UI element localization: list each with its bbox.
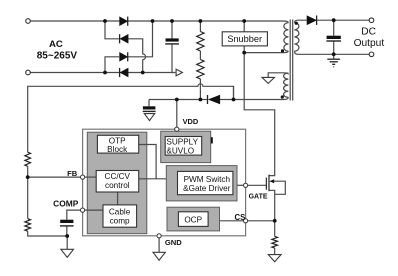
wire CS resistor to ground [274,248,276,254]
wire top rail D1-to-transformer [128,21,288,23]
pin GATE [244,183,248,187]
output capacitor C4 [326,36,341,41]
ground symbol below CS resistor [268,255,281,262]
svg-text:control: control [105,181,130,190]
wire CC/CV to PWM [139,178,167,180]
startup resistor R2 [197,60,204,80]
label DC Output [354,26,385,49]
DC output terminal top [369,18,374,23]
junction node VDD sense [232,98,236,102]
OTP block box [97,135,138,154]
pin COMP [81,208,85,212]
earth ground at output [327,59,340,67]
FB divider resistor R4 [25,219,31,231]
bridge diode D3 [120,52,128,61]
svg-text:comp: comp [110,217,130,226]
aux polarity dot [281,95,284,98]
svg-text:OCP: OCP [184,216,202,225]
primary polarity dot [281,49,284,52]
pin CS [244,219,248,223]
bulk capacitor C1 [165,38,179,44]
wire COMP cap bottom lead [66,226,68,236]
svg-text:GND: GND [165,238,182,247]
svg-text:&Gate Driver: &Gate Driver [183,184,231,193]
wire FB pin lead [28,176,81,178]
wire D2 anode down to bottom rail (hop over D3 row) [128,39,145,73]
junction node top rail bulk cap [170,19,174,23]
wire primary bottom lead [244,51,288,52]
MOSFET body arrow [269,179,274,183]
wire OTP to PWM node [139,145,156,179]
wire output cap bottom lead [333,41,335,54]
AC input terminal bottom [26,70,31,75]
wire GND pin stem [158,238,160,252]
output diode D6 [307,16,317,25]
CS sense resistor R5 [272,236,278,248]
svg-text:COMP: COMP [53,199,79,209]
SUPPLY & UVLO panel [161,131,211,162]
svg-text:DC: DC [361,26,376,37]
wire GATE lead to MOSFET [248,184,267,186]
wire aux diode to aux winding [220,97,288,99]
junction node VDD startup [199,98,203,102]
junction node VDD pin branch [175,98,179,102]
wire top AC rail left [30,20,119,22]
wire output bottom rail [295,51,370,54]
svg-text:FB: FB [67,169,78,178]
wire MOSFET body tie [274,181,286,194]
Cable comp box [103,205,137,227]
bridge diode D2 [120,34,129,43]
wire bottom AC rail [30,72,175,74]
svg-text:Snubber: Snubber [227,34,262,44]
OCP panel [167,207,220,231]
svg-text:CS: CS [235,213,246,222]
svg-text:Cable: Cable [109,207,131,216]
VDD capacitor C3 [143,106,156,111]
wire output ground stem [333,54,335,58]
DC output terminal bottom [369,52,374,57]
wire FB inside [84,176,96,178]
svg-text:AC: AC [49,39,63,50]
aux diode D5 [208,95,220,104]
wire startup resistor bottom lead to VDD line [199,79,201,100]
COMP capacitor C2 [60,220,74,226]
svg-text:Block: Block [107,145,128,154]
svg-text:GATE: GATE [249,194,268,201]
svg-text:PWM Switch: PWM Switch [184,175,231,184]
wire aux top lead to primary-ground arrow [268,73,288,78]
IC outline U1 [83,129,246,236]
junction node top rail x105 [103,19,107,23]
transformer core [290,20,293,101]
ground symbol below COMP [61,249,74,257]
svg-text:CC/CV: CC/CV [105,172,131,181]
wire VDD cap top lead [148,100,150,107]
SUPPLY panel pin tick [211,137,213,143]
svg-text:85~265V: 85~265V [37,50,78,61]
junction node drain snubber [242,51,246,55]
pin GND [157,234,161,238]
junction node output cap top [332,18,336,22]
wire D3 cathode to top rail riser [128,21,153,57]
snubber box [222,32,267,46]
PWM Switch & Gate Driver panel [166,166,237,201]
junction node FB [26,175,30,179]
svg-text:Output: Output [354,38,385,49]
pin FB [81,175,85,179]
wire bulk-cap bottom lead [171,44,173,73]
ground symbol below GND pin [153,252,165,260]
svg-text:SUPPLY: SUPPLY [166,137,198,146]
startup resistor R1 [197,32,204,52]
primary ground arrow (right) [176,69,182,76]
bridge diode D4 [120,68,129,77]
wire PWM to GATE pin [237,184,246,186]
wire CS node to sense resistor [274,221,276,237]
wire AC2 up to D3 anode [105,57,119,73]
svg-text:VDD: VDD [183,117,199,126]
wire output cap top lead [333,20,335,36]
junction node top rail startup resistor [199,19,203,23]
wire snubber top lead [243,21,245,32]
wire between startup resistors [199,51,201,60]
bridge diode D1 [120,17,128,26]
CC/CV control box [96,171,139,193]
wire startup resistor top lead [199,21,201,32]
junction node CS [273,219,277,223]
IC left control panel [87,132,147,234]
pin VDD [175,127,179,131]
wire FB divider bottom to ground [28,231,67,236]
wire COMP inside [84,209,103,211]
junction node top rail x152.5 [151,19,155,23]
wire FB divider middle [27,166,29,218]
primary ground arrow at aux winding [262,77,275,83]
wire snubber bottom / drain riser [244,46,275,176]
wire MOSFET source to CS node [269,190,275,221]
transformer primary winding [284,23,289,52]
wire output diode to DC+ terminal [317,19,369,21]
transformer secondary winding [294,23,299,52]
wire COMP ground stem [66,236,68,249]
wire sense line drop to VDD net [233,86,235,99]
junction node output cap bottom [332,52,336,56]
wire OCP to CS pin [220,220,246,222]
wire secondary top lead to output diode [295,20,307,22]
wire VDD pin lead [176,100,178,128]
FB divider resistor R3 [25,152,31,166]
wire FB-divider sense line (hops over startup resistor lead) [28,84,234,152]
junction node top rail snubber [242,19,246,23]
wire CC/CV to cable comp [117,192,119,205]
wire VDD line [149,99,207,101]
wire AC1 to D2 cathode [105,21,119,39]
wire COMP pin lead [67,210,81,220]
label AC input [37,39,78,61]
primary ground arrow below VDD cap [144,114,154,121]
secondary polarity dot [295,22,298,25]
junction node bottom rail x105 [103,71,107,75]
transformer aux winding [284,73,289,97]
junction node bottom rail x142.7 [141,71,145,75]
AC input terminal top [26,19,31,24]
wire bulk-cap top lead [171,21,173,38]
junction node COMP ground [65,234,69,238]
MOSFET Q1 [266,175,269,192]
svg-text:&UVLO: &UVLO [166,147,194,156]
wire CS pin lead [248,220,275,222]
